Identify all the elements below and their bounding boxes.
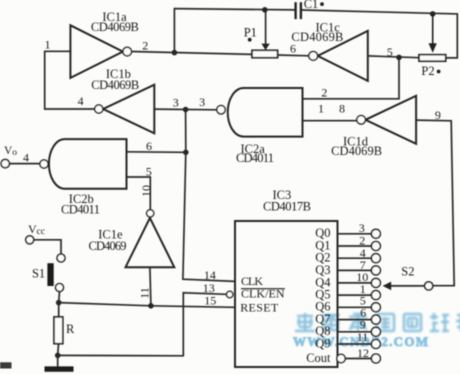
svg-text:CD4069B: CD4069B [91,20,139,34]
svg-text:CD4017B: CD4017B [263,200,311,214]
svg-text:3: 3 [173,96,179,110]
svg-text:5: 5 [387,45,393,59]
svg-text:P1: P1 [244,25,257,39]
svg-text:CD4069B: CD4069B [331,144,382,158]
svg-text:Cout: Cout [306,351,331,365]
svg-text:CD4069: CD4069 [89,239,127,253]
svg-text:1: 1 [45,38,51,52]
svg-text:5: 5 [146,165,152,179]
svg-text:4: 4 [23,151,29,165]
svg-text:P2: P2 [421,64,434,78]
svg-text:11: 11 [138,287,152,299]
svg-text:4: 4 [78,94,84,108]
svg-text:Q9: Q9 [315,336,330,350]
svg-text:o: o [12,148,17,158]
svg-text:S2: S2 [401,265,414,279]
svg-text:RESET: RESET [240,301,279,315]
svg-text:6: 6 [146,139,152,153]
svg-text:CD4069B: CD4069B [291,30,343,44]
svg-text:1: 1 [318,102,324,116]
svg-text:cc: cc [37,227,45,237]
svg-text:8: 8 [339,102,345,116]
svg-text:6: 6 [290,42,296,56]
svg-text:14: 14 [204,268,216,282]
svg-text:2: 2 [321,86,327,100]
svg-text:CD4011: CD4011 [236,151,274,165]
svg-text:3: 3 [199,95,205,109]
svg-text:10: 10 [139,185,153,197]
svg-text:CD4011: CD4011 [61,202,100,216]
svg-text:S1: S1 [32,266,45,280]
svg-text:C1: C1 [304,0,319,11]
svg-text:12: 12 [357,346,369,360]
svg-text:15: 15 [204,293,216,307]
svg-text:11: 11 [357,330,369,344]
svg-text:R: R [66,322,75,336]
svg-text:9: 9 [435,108,441,122]
svg-text:CD4069B: CD4069B [91,78,139,92]
svg-text:2: 2 [142,39,148,53]
